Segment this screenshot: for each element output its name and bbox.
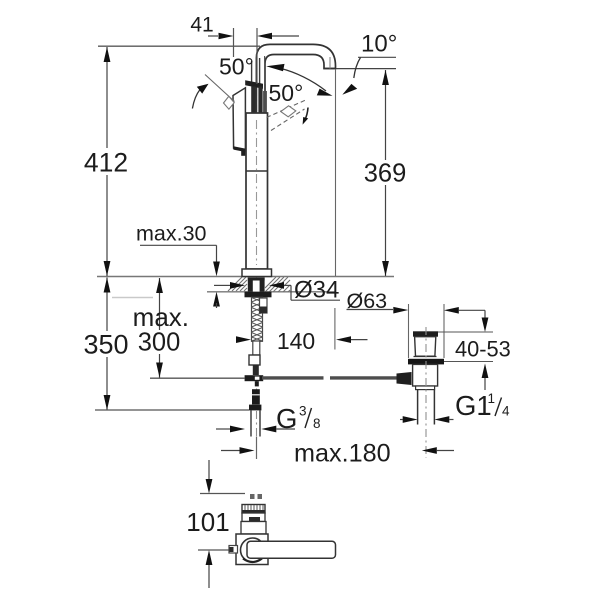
body joint line [246, 170, 268, 172]
dimension 10 degrees [336, 31, 397, 69]
G3/8 hex nut [249, 405, 261, 411]
350 bottom reference line [95, 409, 249, 411]
pop-up rod (horizontal, with break gap) [262, 376, 324, 379]
drain bottom ring [416, 386, 435, 390]
svg-text:300: 300 [138, 329, 181, 357]
rotation arc over spout (50 deg) with two arrowheads [281, 69, 326, 92]
node counter bottom line [207, 291, 335, 293]
dimension diameter 63 [347, 289, 486, 358]
phantom lever rotated right (dashed) [267, 100, 306, 117]
faucet centerline (dash-dot axis) [256, 88, 258, 436]
svg-text:10°: 10° [361, 31, 397, 58]
threaded rod with hatch [252, 297, 263, 341]
small arc arrow at dashed lever [305, 108, 309, 121]
dimension 140 [236, 308, 368, 354]
side view lower reference line [198, 549, 229, 551]
drain tailpipe [417, 390, 419, 425]
side block on threaded rod [260, 298, 268, 313]
side view top reference line [200, 493, 245, 495]
pop-up rod tee fitting [245, 375, 264, 381]
svg-text:1: 1 [488, 391, 496, 406]
svg-text:4: 4 [502, 404, 510, 419]
counter hatching right of faucet [265, 277, 290, 292]
axis continuation below pipe [256, 437, 258, 460]
drain pop-up waste: cap [413, 331, 438, 336]
tee stem below [255, 381, 259, 386]
counter hatching left of faucet [228, 277, 247, 291]
svg-text:max.: max. [133, 302, 189, 332]
svg-text:8: 8 [313, 416, 321, 431]
wire top extension line from spout top to 412 dimension [98, 45, 260, 47]
dark pipe above tee [253, 365, 259, 375]
svg-text:41: 41 [190, 14, 213, 37]
dimension max.30 [136, 222, 220, 309]
dimension 41 [190, 14, 299, 85]
spout outlet bottom edge [324, 68, 336, 70]
spout outlet centerline [329, 57, 331, 69]
supply pipe below nut [250, 410, 252, 436]
side view circle bottom shadow [243, 559, 262, 563]
side view left nub [229, 546, 238, 554]
dimension 350 [83, 278, 129, 411]
side view lever handle [247, 541, 336, 558]
svg-text:412: 412 [84, 148, 128, 178]
body centerline inside [256, 120, 258, 265]
drain centerline [425, 327, 427, 458]
plain rod segment [253, 341, 260, 355]
dimension max.300 [133, 278, 189, 378]
node counter bottom faint left segment [112, 297, 153, 299]
faucet body column [246, 113, 268, 269]
svg-text:50°: 50° [269, 80, 304, 106]
svg-text:369: 369 [364, 160, 407, 188]
dimension diameter 34 [214, 277, 340, 304]
base flange [242, 269, 272, 277]
side view spout housing [236, 534, 268, 565]
svg-text:max.180: max.180 [294, 440, 391, 468]
side view tiny top marks [250, 494, 262, 499]
lever shaft dark bands over cartridge [251, 87, 256, 114]
dimension 101 [186, 460, 229, 588]
node counter top line [97, 276, 394, 278]
G3/8 fitting block [252, 389, 260, 404]
svg-text:G1: G1 [455, 390, 492, 421]
side view spout circle [241, 538, 265, 562]
label G 3/8 [216, 403, 321, 434]
drain neck rings [414, 356, 437, 358]
dimension 412 [84, 47, 130, 276]
side view mid body section [241, 522, 266, 535]
lever handle dark bottom edge [233, 146, 245, 152]
dimension 369 [363, 70, 408, 276]
phantom lever cross-section diamond left [224, 96, 235, 109]
10 degree arc with arrowhead [354, 58, 361, 79]
drain upper body [415, 337, 436, 357]
svg-text:G: G [276, 403, 297, 434]
side view knurled cap [242, 505, 265, 514]
svg-text:Ø34: Ø34 [294, 277, 339, 304]
lever handle foot tab [241, 151, 245, 156]
drain mid body [413, 364, 438, 386]
phantom line lever rotated left [205, 75, 235, 102]
dimension 40-53 [438, 310, 511, 390]
max.300 bottom reference line [150, 377, 245, 379]
shank cross-section below counter [248, 278, 265, 292]
svg-text:max.30: max.30 [136, 222, 207, 246]
svg-text:50°: 50° [219, 54, 254, 80]
mounting nut below counter [245, 292, 272, 298]
small fitting above tee [249, 355, 260, 365]
pivot knob [397, 372, 412, 385]
phantom lever cross-section diamond right [281, 106, 296, 117]
label G 1 1/4 [400, 390, 510, 423]
drain flange [408, 359, 444, 365]
svg-text:140: 140 [277, 328, 315, 354]
svg-text:3: 3 [299, 404, 307, 419]
spout pipe outline [256, 44, 335, 113]
rotation arc left with arrowhead [192, 90, 200, 109]
svg-text:101: 101 [186, 507, 229, 537]
svg-text:350: 350 [83, 330, 128, 360]
lever top cap (tilted) [245, 80, 263, 89]
lever handle (solid, front position) [233, 88, 245, 151]
svg-text:40-53: 40-53 [455, 337, 511, 362]
dimension max.180 [221, 440, 454, 468]
lever joystick stick lines [251, 61, 253, 84]
svg-text:Ø63: Ø63 [347, 289, 388, 313]
side view upper body section [242, 513, 265, 522]
spout outlet projection line [335, 69, 337, 276]
